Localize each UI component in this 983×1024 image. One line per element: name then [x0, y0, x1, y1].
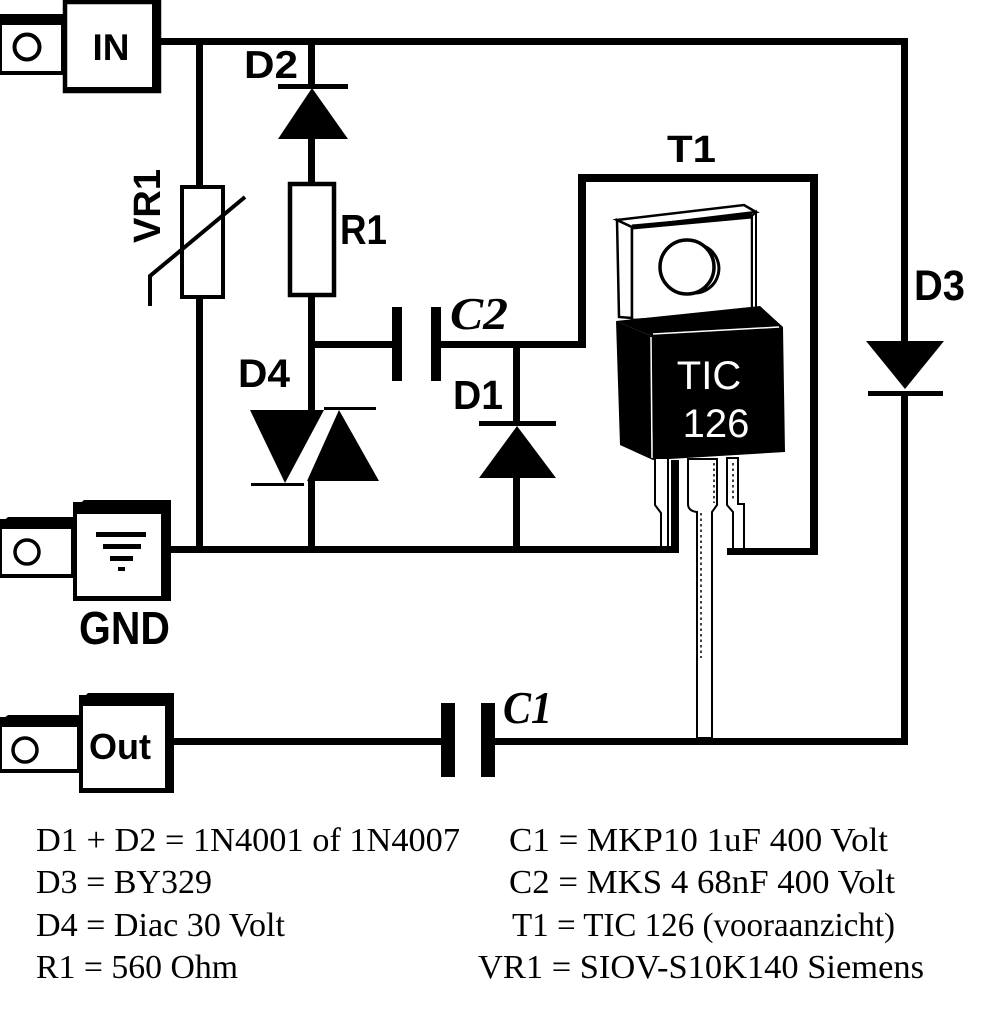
tab hole	[660, 240, 714, 294]
diac D4	[250, 407, 379, 486]
varistor VR1	[150, 187, 245, 306]
svg-text:D4: D4	[238, 352, 291, 396]
wire C1 right	[495, 738, 908, 745]
svg-text:VR1 = SIOV-S10K140 Siemens: VR1 = SIOV-S10K140 Siemens	[478, 949, 924, 986]
svg-text:C1: C1	[503, 682, 552, 733]
resistor R1	[290, 184, 334, 295]
wire T1 frame	[578, 174, 818, 555]
body front face	[651, 327, 785, 460]
lead 3 (right)	[727, 458, 744, 549]
svg-text:126: 126	[683, 402, 750, 446]
tab top face	[617, 205, 756, 227]
svg-text:GND: GND	[79, 602, 170, 654]
ground symbol	[96, 532, 146, 537]
wire C2 right	[441, 341, 582, 348]
svg-text:T1: T1	[667, 129, 716, 171]
body left face	[616, 321, 653, 460]
svg-text:D2: D2	[244, 44, 298, 87]
tab right edge	[752, 212, 756, 313]
svg-text:T1 = TIC 126 (vooraanzicht): T1 = TIC 126 (vooraanzicht)	[512, 907, 895, 944]
diode D1	[479, 421, 556, 478]
wire Out	[174, 738, 441, 745]
lead 1 (left)	[655, 458, 668, 549]
capacitor C1	[441, 703, 495, 777]
wire stub to lead 1	[671, 460, 679, 552]
svg-text:VR1: VR1	[127, 169, 169, 243]
svg-text:D4 = Diac 30 Volt: D4 = Diac 30 Volt	[36, 907, 286, 944]
svg-text:TIC: TIC	[677, 354, 741, 398]
wire D3 upper	[901, 42, 908, 343]
wire R1 to D4	[308, 295, 315, 410]
body top face	[616, 306, 783, 336]
tab front face	[632, 216, 752, 320]
tab hole depth arc	[693, 246, 719, 293]
svg-text:R1 = 560 Ohm: R1 = 560 Ohm	[36, 949, 238, 986]
svg-text:IN: IN	[93, 27, 130, 68]
transistor T1 package	[616, 205, 785, 738]
svg-text:C1 = MKP10 1uF 400 Volt: C1 = MKP10 1uF 400 Volt	[509, 822, 889, 859]
wire D4 to GND wire	[308, 481, 315, 549]
svg-text:D3 = BY329: D3 = BY329	[36, 864, 212, 901]
diode D2	[278, 84, 348, 139]
tab front-top black band	[632, 216, 752, 227]
wire top horizontal	[159, 38, 908, 45]
wire VR1 branch upper	[196, 42, 203, 189]
wire D1 branch	[513, 348, 520, 423]
capacitor C2	[392, 307, 441, 381]
lead 3 dotted line	[732, 463, 734, 500]
connector GND	[0, 500, 171, 601]
lead 2 dotted lines	[713, 463, 715, 503]
tab left face	[617, 220, 632, 318]
connector Out	[0, 693, 174, 793]
wire GND horizontal	[171, 546, 679, 553]
lead 2 (middle, long)	[688, 459, 717, 738]
svg-text:D1: D1	[453, 372, 503, 418]
svg-text:D1 + D2 = 1N4001 of 1N4007: D1 + D2 = 1N4001 of 1N4007	[36, 822, 460, 859]
body white slivers	[653, 327, 779, 334]
wire C2 left	[311, 341, 394, 348]
svg-text:Out: Out	[89, 726, 151, 767]
connector IN	[0, 0, 161, 93]
diode D3	[866, 341, 944, 396]
svg-text:R1: R1	[340, 206, 387, 253]
svg-text:D3: D3	[914, 262, 965, 310]
wire D1 to GND wire	[513, 476, 520, 549]
wire D2 to R1	[308, 137, 315, 186]
svg-text:C2 = MKS 4 68nF 400 Volt: C2 = MKS 4 68nF 400 Volt	[509, 864, 896, 901]
wire VR1 branch lower	[196, 297, 203, 549]
svg-text:C2: C2	[450, 288, 508, 339]
wire D3 lower	[901, 396, 908, 744]
wire D2 branch upper	[308, 42, 315, 86]
